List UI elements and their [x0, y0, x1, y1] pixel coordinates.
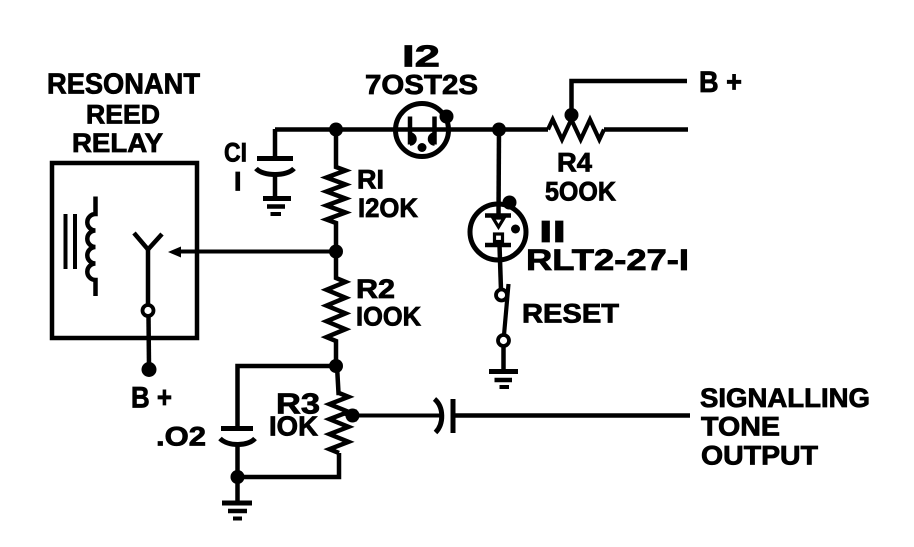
wire junction to .02 cap	[238, 366, 337, 426]
reset switch bottom contact	[498, 335, 509, 346]
resistor R4	[548, 120, 604, 140]
relay reed contact (armature Y)	[134, 233, 162, 250]
svg-text:RLT2-27-I: RLT2-27-I	[526, 244, 689, 277]
svg-text:IOOK: IOOK	[356, 302, 421, 332]
wire I1 to reset switch	[500, 245, 502, 290]
reset switch top contact	[496, 290, 507, 301]
ground (reset)	[489, 369, 518, 374]
svg-text:RESET: RESET	[522, 299, 620, 329]
R3 wiper arrow	[352, 414, 442, 418]
I1 inner dot	[511, 225, 520, 234]
svg-text:OUTPUT: OUTPUT	[701, 441, 819, 471]
I1 top electrode	[485, 213, 511, 218]
node: junction R2/R3	[329, 359, 343, 373]
I1 envelope tip dot	[503, 196, 517, 210]
svg-text:B +: B +	[699, 66, 742, 99]
relay K1 box	[52, 163, 197, 338]
resistor R1	[327, 129, 346, 251]
svg-text:I2OK: I2OK	[358, 193, 418, 223]
svg-text:5OOK: 5OOK	[545, 177, 616, 207]
resistor R2	[327, 251, 346, 366]
I2 envelope tip dot	[440, 110, 454, 124]
wire: top rail from C1 to R4	[275, 127, 548, 132]
wire junction B to I1	[496, 129, 501, 216]
I2 right electrode	[432, 117, 437, 145]
wire R4 tap to B+	[572, 81, 688, 115]
ground (.02)	[222, 501, 252, 506]
capacitor .02 top plate	[221, 426, 253, 431]
relay contact terminal circle	[143, 305, 154, 316]
arrow into relay contact	[179, 250, 336, 254]
svg-text:SIGNALLING: SIGNALLING	[700, 383, 870, 413]
neon lamp I2 envelope	[396, 104, 449, 157]
neon lamp I1 envelope	[470, 204, 526, 260]
capacitor C1 bottom lead	[273, 175, 278, 198]
wire contact to B+ terminal	[146, 316, 151, 366]
wire to signalling tone output	[455, 413, 690, 418]
relay core	[64, 214, 68, 269]
svg-text:R4: R4	[557, 148, 592, 178]
svg-text:CI: CI	[224, 138, 247, 168]
svg-text:TONE: TONE	[701, 412, 780, 442]
capacitor .02 bottom lead	[235, 445, 240, 477]
svg-text:7OST2S: 7OST2S	[365, 69, 478, 100]
svg-text:I: I	[234, 167, 242, 197]
coupling capacitor straight plate	[451, 399, 456, 433]
capacitor C1 lead	[273, 129, 278, 158]
relay coil L1	[87, 197, 95, 297]
node: B+ tap on R4	[565, 108, 579, 122]
svg-text:R2: R2	[356, 274, 395, 304]
node: junction .02/ground	[231, 470, 245, 484]
svg-text:RI: RI	[357, 165, 384, 195]
svg-text:.O2: .O2	[156, 422, 206, 452]
capacitor C1 curved plate	[256, 169, 294, 175]
wire: top rail right of R4	[604, 127, 688, 132]
I1 bottom electrode	[495, 234, 503, 242]
node: junction R1/R2	[329, 245, 343, 259]
I2 inner dot	[418, 143, 427, 152]
svg-text:B +: B +	[131, 382, 172, 415]
svg-text:RELAY: RELAY	[72, 128, 163, 158]
coupling capacitor curved plate	[435, 399, 442, 433]
resistor R3 (pot)	[330, 366, 349, 453]
capacitor C1 top plate	[257, 156, 293, 161]
wire bottom of R3 to junction	[238, 453, 340, 477]
node: junction above I1	[492, 123, 506, 137]
capacitor .02 curved plate	[220, 439, 255, 445]
node: junction top of R1	[329, 123, 343, 137]
wire reset to ground	[501, 346, 506, 371]
svg-text:RESONANT: RESONANT	[47, 69, 200, 101]
svg-text:REED: REED	[86, 100, 160, 130]
I2 left electrode	[408, 117, 413, 145]
ground (C1)	[263, 196, 291, 201]
svg-text:IOK: IOK	[269, 411, 318, 442]
reset switch blade	[504, 284, 509, 335]
B+ terminal dot (relay)	[142, 362, 157, 377]
